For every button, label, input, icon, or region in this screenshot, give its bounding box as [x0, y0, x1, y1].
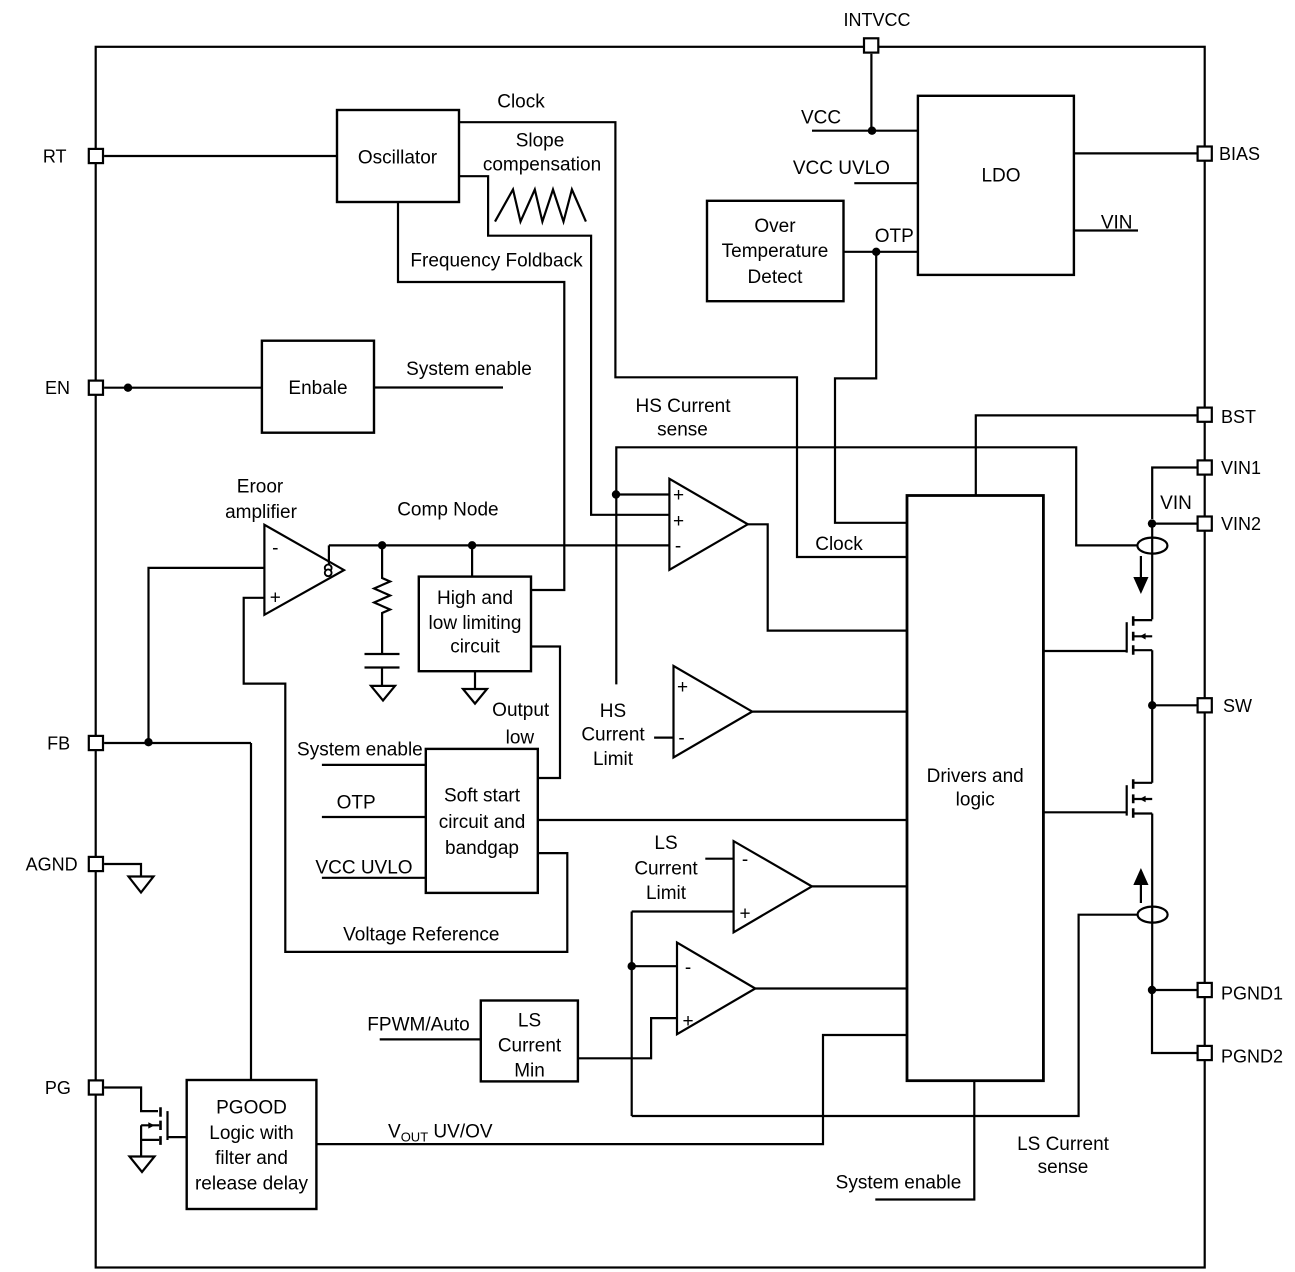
svg-text:Detect: Detect	[748, 267, 804, 288]
wire VOUT UV/OV (PGOOD to Drivers)	[316, 1035, 907, 1144]
junction dot FB	[144, 738, 152, 746]
svg-text:Drivers and: Drivers and	[927, 766, 1024, 787]
pin FB	[47, 733, 103, 753]
block High and low limiting circuit	[419, 577, 531, 672]
svg-text:circuit and: circuit and	[439, 812, 526, 833]
pin SW	[1198, 696, 1252, 716]
junction dot OTP	[872, 248, 880, 256]
wire VCC to LDO	[812, 130, 918, 132]
svg-text:Clock: Clock	[815, 534, 863, 555]
svg-text:release delay: release delay	[195, 1174, 309, 1195]
wire VIN1 to VIN rail	[1152, 468, 1196, 520]
svg-text:Soft start: Soft start	[444, 786, 521, 807]
block LDO	[918, 96, 1074, 275]
svg-text:VIN: VIN	[1101, 213, 1133, 234]
transistor Q3 low-side NMOS	[1043, 779, 1152, 818]
svg-text:-: -	[742, 850, 748, 871]
svg-text:+: +	[673, 485, 684, 506]
wire LDO to BIAS	[1074, 152, 1197, 154]
pin BST	[1198, 407, 1256, 427]
svg-text:PGND2: PGND2	[1221, 1047, 1283, 1067]
svg-text:LDO: LDO	[981, 166, 1020, 187]
svg-text:bandgap: bandgap	[445, 838, 519, 859]
wire Comp Node net	[329, 544, 670, 546]
junction dot HS sense	[612, 490, 620, 498]
svg-text:Frequency Foldback: Frequency Foldback	[410, 251, 583, 272]
svg-text:Eroor: Eroor	[237, 477, 284, 498]
svg-text:Temperature: Temperature	[722, 241, 829, 262]
svg-text:BST: BST	[1221, 407, 1256, 427]
wire INTVCC stem	[870, 54, 872, 131]
wire limiting box to soft start	[531, 647, 560, 779]
wire System enable into soft start	[322, 764, 426, 766]
svg-text:High and: High and	[437, 588, 513, 609]
svg-text:OTP: OTP	[875, 226, 914, 247]
junction dot comp node R	[378, 541, 386, 549]
svg-text:Enbale: Enbale	[288, 378, 347, 399]
svg-text:Limit: Limit	[593, 749, 634, 770]
svg-text:Output: Output	[492, 700, 550, 721]
svg-text:+: +	[682, 1011, 693, 1032]
wire LS source to PGND	[1151, 814, 1153, 991]
svg-text:-: -	[675, 536, 681, 557]
wire OTP (OTD to LDO)	[844, 251, 918, 253]
svg-text:Min: Min	[514, 1061, 545, 1082]
ground AGND	[129, 877, 154, 893]
wire HS sense comparator output to Drivers	[748, 524, 907, 630]
svg-text:+: +	[677, 677, 688, 698]
svg-text:Oscillator: Oscillator	[358, 148, 438, 169]
svg-text:FPWM/Auto: FPWM/Auto	[367, 1015, 469, 1036]
wire comp node into limiting box	[471, 545, 473, 576]
wire LS limit output to Drivers	[812, 885, 907, 887]
svg-text:PG: PG	[45, 1078, 71, 1098]
svg-text:VIN1: VIN1	[1221, 458, 1261, 478]
svg-text:filter and: filter and	[215, 1148, 288, 1169]
wire EN to Enbale	[104, 387, 262, 389]
svg-text:+: +	[739, 904, 750, 925]
wire LS sense to LS limit plus	[632, 910, 734, 912]
wire Frequency Foldback net (Oscillator to High/low limiting circuit)	[398, 202, 564, 590]
op-amp error amplifier	[264, 525, 344, 615]
wire PGND1	[1152, 989, 1197, 991]
svg-text:VIN: VIN	[1160, 493, 1192, 514]
svg-text:sense: sense	[1038, 1157, 1089, 1178]
wire dot to zero cross minus	[632, 965, 677, 967]
svg-text:VCC: VCC	[801, 108, 841, 129]
svg-text:VIN2: VIN2	[1221, 514, 1261, 534]
LS current sensor ellipse	[1138, 907, 1168, 923]
wire VIN stub from LDO	[1074, 229, 1138, 231]
svg-text:-: -	[685, 958, 691, 979]
svg-text:Current: Current	[634, 859, 698, 880]
capacitor compensation C	[365, 654, 400, 685]
junction dot PGND	[1148, 986, 1156, 994]
junction dot VIN node	[1148, 519, 1156, 527]
pin RT	[43, 146, 103, 166]
wire LS sense vertical	[631, 912, 633, 1117]
svg-text:HS: HS	[600, 701, 626, 722]
svg-text:Current: Current	[581, 725, 645, 746]
junction dot LS sense	[628, 962, 636, 970]
ground arrow output low	[463, 689, 487, 704]
block Soft start circuit and bandgap	[426, 749, 538, 893]
svg-text:logic: logic	[956, 790, 995, 811]
junction dot EN	[124, 384, 132, 392]
svg-text:Voltage Reference: Voltage Reference	[343, 925, 499, 946]
wire System enable stub from Enbale	[374, 386, 503, 388]
svg-text:Current: Current	[498, 1036, 562, 1057]
wire soft start output to Drivers	[538, 819, 907, 821]
transistor Q1 PGOOD open-drain mosfet	[141, 1107, 187, 1155]
wire FB to error amp inverting input	[104, 742, 251, 744]
svg-text:VCC UVLO: VCC UVLO	[315, 857, 412, 878]
svg-text:EN: EN	[45, 378, 70, 398]
transconductance symbol circles at apex	[325, 565, 332, 572]
wire Slope compensation net (Oscillator to HS sense comparator)	[459, 176, 669, 515]
block Enbale (enable)	[262, 341, 374, 433]
svg-text:-: -	[272, 538, 278, 559]
sawtooth slope waveform	[495, 190, 586, 222]
wire System enable bottom into Drivers	[875, 1081, 974, 1200]
svg-text:Comp Node: Comp Node	[397, 500, 498, 521]
svg-text:low: low	[506, 728, 535, 749]
ground below PGOOD mosfet	[130, 1157, 155, 1173]
block PGOOD Logic	[187, 1080, 317, 1209]
svg-text:System enable: System enable	[297, 740, 423, 761]
wire BST to Drivers	[976, 415, 1197, 495]
arrow current direction down	[1140, 556, 1142, 578]
wire FB to PGOOD logic	[250, 743, 252, 1080]
svg-text:SW: SW	[1223, 696, 1252, 716]
comparator LS current limit	[734, 841, 812, 932]
svg-text:Slope: Slope	[516, 131, 565, 152]
pin VIN1	[1198, 458, 1261, 478]
wire OTP net to Drivers	[835, 252, 907, 523]
wire LS limit minus stub	[705, 858, 733, 860]
wire FB up to minus input	[149, 568, 265, 742]
svg-text:LS: LS	[518, 1011, 541, 1032]
svg-text:INTVCC: INTVCC	[844, 10, 911, 30]
pin AGND	[26, 854, 103, 874]
wire PGND2	[1152, 990, 1197, 1053]
svg-text:System enable: System enable	[836, 1173, 962, 1194]
wire HS limit minus stub	[654, 736, 673, 738]
svg-text:LS Current: LS Current	[1017, 1134, 1110, 1155]
wire bandgap reference to plus input (Voltage Reference loop)	[244, 598, 568, 952]
wire zero cross output to Drivers	[755, 987, 907, 989]
svg-text:sense: sense	[657, 420, 708, 441]
svg-text:FB: FB	[47, 733, 70, 753]
pin EN	[45, 378, 103, 398]
wire VIN rail through HS sensor	[1151, 524, 1153, 620]
comparator zero cross	[677, 943, 755, 1035]
transistor Q2 high-side NMOS	[1043, 616, 1152, 655]
svg-text:Clock: Clock	[497, 92, 545, 113]
resistor compensation R	[374, 545, 390, 654]
svg-text:System enable: System enable	[406, 359, 532, 380]
wire LS current sense net	[632, 915, 1138, 1116]
wire SW to pin	[1152, 704, 1196, 706]
arrow current direction up	[1140, 885, 1142, 903]
wire AGND stub	[104, 864, 141, 877]
HS current sensor ellipse	[1137, 538, 1167, 554]
svg-text:HS Current: HS Current	[635, 396, 731, 417]
wire FPWM/Auto into LS Current Min	[380, 1038, 481, 1040]
comparator HS current limit	[674, 666, 753, 758]
svg-text:PGOOD: PGOOD	[216, 1098, 287, 1119]
block Over Temperature Detect	[707, 201, 844, 301]
pin PGND2	[1198, 1046, 1283, 1067]
wire HS current sense net	[616, 447, 1137, 684]
wire RT to Oscillator	[104, 155, 337, 157]
wire HS limit output to Drivers	[752, 710, 907, 712]
ground below capacitor	[371, 686, 395, 701]
junction dot comp node box	[468, 541, 476, 549]
wire Clock net (Oscillator to Drivers)	[459, 122, 907, 557]
svg-text:amplifier: amplifier	[225, 502, 297, 523]
pin PGND1	[1198, 983, 1283, 1004]
block Oscillator U1	[337, 110, 459, 202]
svg-text:+: +	[270, 588, 281, 609]
wire limiting box output low stem	[474, 671, 476, 688]
comparator HS current sense	[669, 479, 747, 570]
svg-text:PGND1: PGND1	[1221, 984, 1283, 1004]
junction dot VCC/INTVCC	[868, 127, 876, 135]
wire VCC UVLO stub to LDO	[854, 182, 918, 184]
svg-text:compensation: compensation	[483, 155, 601, 176]
pin BIAS	[1198, 144, 1260, 164]
svg-text:Over: Over	[754, 216, 796, 237]
svg-text:OTP: OTP	[337, 793, 376, 814]
svg-text:Limit: Limit	[646, 883, 687, 904]
wire VCC UVLO into soft start	[322, 877, 426, 879]
junction dot SW	[1148, 701, 1156, 709]
wire VIN2 to VIN rail	[1152, 522, 1196, 524]
wire LS Current Min output to zero cross plus	[578, 1018, 677, 1058]
svg-text:VCC UVLO: VCC UVLO	[793, 158, 890, 179]
wire error amp output stub	[328, 545, 330, 564]
svg-text:low limiting: low limiting	[429, 613, 522, 634]
pin INTVCC	[844, 10, 911, 53]
pin VIN2	[1198, 514, 1261, 534]
wire SW node	[1151, 650, 1153, 783]
wire PG to mosfet drain	[104, 1088, 158, 1112]
pin PG	[45, 1078, 103, 1098]
svg-text:circuit: circuit	[450, 637, 500, 658]
svg-text:Logic with: Logic with	[209, 1123, 294, 1144]
svg-text:+: +	[673, 511, 684, 532]
block Drivers and logic	[907, 496, 1043, 1081]
wire HS sense to comparator plus	[616, 493, 669, 495]
wire OTP into soft start	[322, 816, 426, 818]
svg-text:RT: RT	[43, 146, 67, 166]
svg-text:AGND: AGND	[26, 854, 78, 874]
block LS Current Min	[481, 1001, 578, 1082]
svg-text:BIAS: BIAS	[1219, 144, 1260, 164]
svg-text:LS: LS	[654, 833, 677, 854]
svg-text:-: -	[678, 728, 684, 749]
